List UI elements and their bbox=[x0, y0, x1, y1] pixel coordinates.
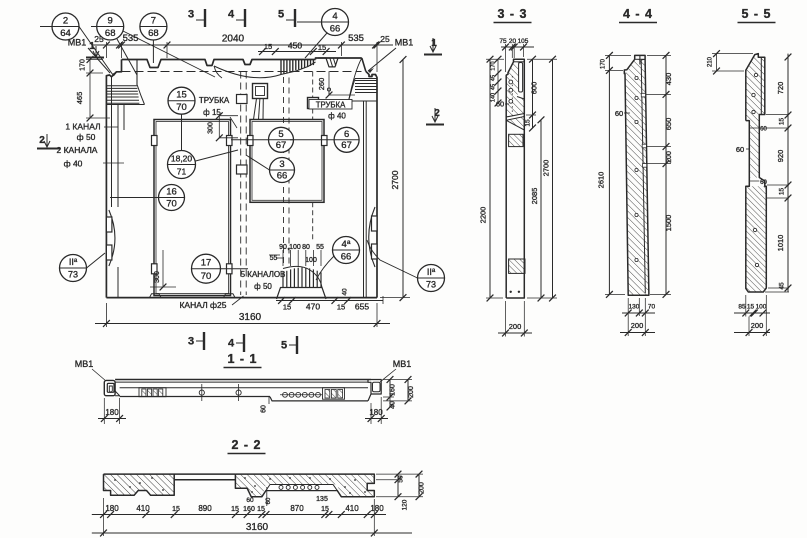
fan sweep arc bbox=[214, 66, 281, 78]
section 1-1 top flange bbox=[115, 379, 371, 381]
leader 2/64 bbox=[79, 27, 113, 76]
svg-text:16: 16 bbox=[166, 187, 177, 198]
svg-text:МВ1: МВ1 bbox=[75, 359, 94, 369]
channel fan vertical lines at top bbox=[280, 60, 282, 75]
right window opening bbox=[250, 120, 324, 203]
leader 4/66 bbox=[305, 33, 327, 58]
section 1-1 centerline circles bbox=[199, 390, 204, 395]
leader 15/70 bbox=[181, 114, 183, 150]
position circle 6/67 bbox=[334, 127, 359, 152]
svg-text:КАНАЛ ф25: КАНАЛ ф25 bbox=[179, 300, 226, 310]
section 3-3 small circles bbox=[509, 80, 513, 84]
section 2-2 dim 3160 bbox=[92, 532, 412, 534]
comb dim extension lines bbox=[282, 250, 284, 266]
left door opening bbox=[154, 120, 231, 296]
svg-text:160: 160 bbox=[390, 384, 397, 396]
svg-text:5: 5 bbox=[278, 9, 284, 21]
svg-text:600: 600 bbox=[530, 82, 539, 95]
svg-text:210: 210 bbox=[708, 56, 714, 67]
svg-text:15: 15 bbox=[525, 119, 532, 127]
section 3-3 corbel bottom edges bbox=[506, 114, 524, 118]
dim 3160 line bbox=[95, 323, 390, 325]
leader 6/67 bbox=[290, 139, 334, 141]
section 3-3 bottom dots bbox=[510, 291, 512, 293]
svg-text:МВ1: МВ1 bbox=[395, 38, 414, 48]
section 2-2 recess with channel circles bbox=[266, 485, 337, 491]
svg-text:45: 45 bbox=[491, 75, 497, 81]
svg-text:3: 3 bbox=[188, 336, 194, 348]
svg-text:870: 870 bbox=[290, 504, 304, 513]
svg-text:200: 200 bbox=[419, 482, 426, 494]
leader 16/70 bbox=[110, 197, 159, 199]
svg-text:15: 15 bbox=[779, 118, 786, 126]
panel plan outline bbox=[122, 60, 316, 68]
svg-text:410: 410 bbox=[345, 504, 359, 513]
svg-text:430: 430 bbox=[664, 73, 673, 86]
svg-text:15: 15 bbox=[264, 42, 272, 51]
section 5-5 bottom dims 85/15/100 bbox=[734, 312, 770, 314]
svg-text:15: 15 bbox=[172, 506, 180, 513]
svg-text:50: 50 bbox=[398, 475, 405, 483]
svg-text:200: 200 bbox=[751, 321, 764, 330]
svg-text:5: 5 bbox=[278, 129, 283, 140]
svg-text:5: 5 bbox=[281, 340, 287, 352]
right pier inner edge double line bbox=[363, 101, 365, 298]
svg-text:90: 90 bbox=[279, 244, 287, 251]
svg-text:535: 535 bbox=[348, 33, 364, 44]
svg-text:2610: 2610 bbox=[597, 172, 606, 189]
svg-text:100: 100 bbox=[756, 304, 767, 311]
svg-text:2 - 2: 2 - 2 bbox=[231, 438, 261, 452]
svg-text:15: 15 bbox=[283, 303, 291, 312]
panel top-left corner step bbox=[106, 60, 121, 298]
svg-text:2 КАНАЛА: 2 КАНАЛА bbox=[57, 145, 98, 155]
svg-text:ТРУБКА: ТРУБКА bbox=[316, 100, 346, 109]
svg-text:7: 7 bbox=[151, 16, 156, 27]
svg-text:66: 66 bbox=[341, 251, 352, 262]
section 4-4 hatch bbox=[625, 59, 649, 295]
section 5-5 hatch lower bbox=[746, 186, 767, 292]
svg-text:120: 120 bbox=[402, 499, 409, 510]
svg-text:4 - 4: 4 - 4 bbox=[623, 7, 653, 21]
section 3-3 dim 2200 bbox=[489, 59, 491, 298]
svg-text:15: 15 bbox=[176, 90, 187, 101]
leader 3/66 bbox=[246, 155, 270, 170]
canal f25 leader bbox=[232, 296, 244, 305]
svg-text:60: 60 bbox=[760, 180, 767, 186]
section 3-3 top dims bbox=[501, 46, 534, 48]
section 4-4 bottom dims 130/70 bbox=[622, 312, 655, 314]
svg-text:170: 170 bbox=[80, 59, 87, 71]
position circle 3/66 bbox=[270, 158, 295, 183]
section 1-1 insert cells right bbox=[325, 390, 330, 399]
svg-text:655: 655 bbox=[355, 302, 369, 312]
trubka f40 square symbol right bbox=[308, 98, 319, 109]
canal leader lines left bbox=[111, 77, 113, 105]
section 1-1 channel circles bbox=[283, 392, 288, 397]
section 1-1 insert cells left bbox=[142, 389, 146, 397]
lines from trubka symbol down bbox=[254, 99, 257, 120]
svg-text:260: 260 bbox=[317, 78, 326, 91]
svg-text:180: 180 bbox=[370, 504, 384, 513]
svg-text:1 КАНАЛ: 1 КАНАЛ bbox=[65, 122, 100, 132]
section 2-2 concrete dots bbox=[114, 479, 116, 481]
dim 300 upper bbox=[218, 116, 220, 138]
section 1-1 left anchor block bbox=[104, 380, 115, 395]
svg-text:45: 45 bbox=[491, 84, 497, 90]
svg-text:15: 15 bbox=[257, 506, 265, 513]
canal leader lines bbox=[104, 126, 118, 128]
svg-text:60: 60 bbox=[261, 405, 268, 413]
svg-text:2200: 2200 bbox=[479, 207, 488, 224]
left corbel hatch band bbox=[106, 85, 137, 87]
svg-text:465: 465 bbox=[75, 92, 84, 105]
svg-text:ф 50: ф 50 bbox=[77, 132, 96, 142]
section 2-2 right dims bbox=[397, 474, 399, 497]
svg-text:300: 300 bbox=[154, 271, 161, 283]
section 4-4 small circles bbox=[635, 76, 638, 79]
svg-text:15: 15 bbox=[321, 506, 329, 513]
svg-text:85: 85 bbox=[738, 304, 746, 311]
leader 9/68 bbox=[117, 39, 137, 75]
svg-text:67: 67 bbox=[276, 140, 287, 151]
svg-text:2700: 2700 bbox=[390, 170, 400, 189]
keyway hatch top trapezoid 326-338 bbox=[318, 58, 338, 67]
leader from 9/68 to fan bbox=[123, 31, 215, 77]
position circle 4/66 top bbox=[322, 9, 349, 36]
svg-text:470: 470 bbox=[306, 302, 320, 312]
dim 170 left bbox=[89, 60, 91, 74]
trubka f15 square symbol bbox=[253, 84, 268, 99]
section 5-5 right dims bbox=[787, 54, 789, 292]
svg-text:40: 40 bbox=[342, 288, 349, 296]
trubka f40 leader dot bbox=[328, 91, 330, 95]
svg-text:410: 410 bbox=[136, 504, 150, 513]
svg-text:ф 50: ф 50 bbox=[254, 282, 272, 291]
svg-text:130: 130 bbox=[629, 304, 640, 311]
dim 300 lower left bbox=[162, 250, 164, 287]
comb dim line bbox=[269, 254, 280, 256]
section 1-1 right dims 160/200/40 bbox=[389, 380, 391, 398]
svg-text:170: 170 bbox=[601, 58, 607, 69]
right corbel hatch band bbox=[355, 80, 377, 82]
section 4-4 dim 170 and 2610 left bbox=[608, 55, 610, 294]
svg-text:68: 68 bbox=[105, 28, 116, 39]
section 3-3 inner slot bbox=[519, 63, 523, 93]
svg-text:70: 70 bbox=[201, 271, 212, 282]
section 4-4 body outline bbox=[624, 55, 649, 295]
svg-text:70: 70 bbox=[166, 198, 177, 209]
section 4-4 inner face line bbox=[641, 60, 645, 293]
position circle 9/68 bbox=[97, 13, 124, 40]
svg-text:66: 66 bbox=[277, 170, 288, 181]
position circle IIa/73 left bbox=[60, 255, 87, 282]
svg-text:180: 180 bbox=[105, 504, 119, 513]
right opening edge markers bbox=[248, 136, 254, 146]
svg-text:3160: 3160 bbox=[239, 312, 262, 323]
leader 17/70 bbox=[221, 268, 249, 270]
svg-text:60: 60 bbox=[615, 109, 623, 118]
trubka f40 boxed label bbox=[309, 100, 352, 110]
right edge lifting-loop arc bbox=[369, 207, 375, 267]
dim 465 left bbox=[89, 73, 91, 118]
section 2-2 web bbox=[174, 473, 235, 475]
section 2-2 dim row bbox=[92, 514, 386, 516]
position circle 17/70 bbox=[192, 254, 221, 283]
panel top-right corner step bbox=[366, 71, 377, 297]
svg-text:2: 2 bbox=[39, 135, 45, 146]
svg-text:80: 80 bbox=[302, 244, 310, 251]
svg-text:15: 15 bbox=[779, 188, 786, 196]
svg-text:3 - 3: 3 - 3 bbox=[497, 7, 527, 21]
svg-text:5 - 5: 5 - 5 bbox=[741, 7, 771, 21]
section 1-1 dim 180 right bbox=[365, 418, 388, 420]
svg-text:450: 450 bbox=[288, 41, 302, 51]
svg-text:ф 40: ф 40 bbox=[328, 112, 346, 121]
svg-text:71: 71 bbox=[177, 166, 187, 176]
svg-text:300: 300 bbox=[208, 122, 215, 134]
section 5-5 inner face line bbox=[760, 57, 762, 114]
MB1 right leader bbox=[368, 48, 396, 71]
svg-text:720: 720 bbox=[776, 82, 785, 95]
svg-text:105: 105 bbox=[518, 38, 529, 45]
svg-text:4: 4 bbox=[332, 11, 337, 22]
svg-text:70: 70 bbox=[176, 102, 187, 113]
section 3-3 dim 2700 bbox=[552, 59, 554, 298]
svg-text:66: 66 bbox=[330, 23, 341, 34]
svg-text:60: 60 bbox=[760, 127, 767, 133]
position circle IIa/73 right bbox=[418, 265, 445, 292]
svg-text:75: 75 bbox=[499, 38, 507, 45]
svg-text:70: 70 bbox=[648, 304, 656, 311]
svg-text:200: 200 bbox=[666, 151, 673, 163]
section 3-3 dim 600 and 15 bbox=[532, 59, 534, 128]
svg-text:200: 200 bbox=[408, 386, 415, 398]
section 3-3 body outline bbox=[506, 59, 524, 298]
svg-text:55: 55 bbox=[270, 255, 278, 262]
svg-text:5 КАНАЛОВ: 5 КАНАЛОВ bbox=[241, 270, 286, 279]
section 3-3 hatched insert lower bbox=[509, 259, 525, 273]
svg-text:17: 17 bbox=[201, 258, 212, 269]
door threshold feet bbox=[150, 294, 162, 298]
section 4-4 bottom dim 200 bbox=[620, 332, 655, 334]
left opening edge markers bbox=[152, 136, 158, 146]
section 4-4 cap tick bbox=[639, 55, 641, 64]
svg-text:15: 15 bbox=[747, 304, 755, 311]
section 3-3 hatch top bbox=[506, 62, 524, 117]
svg-text:15: 15 bbox=[231, 506, 239, 513]
dim 260 fan bbox=[328, 71, 330, 95]
svg-text:3: 3 bbox=[188, 9, 194, 21]
svg-text:40: 40 bbox=[390, 401, 397, 409]
leader IIa left bbox=[87, 253, 106, 268]
svg-text:60: 60 bbox=[496, 100, 504, 109]
section 1-1 left block wedge bbox=[115, 391, 120, 396]
svg-text:1500: 1500 bbox=[664, 215, 673, 232]
svg-text:1: 1 bbox=[431, 38, 437, 49]
svg-text:920: 920 bbox=[776, 150, 785, 163]
svg-text:60: 60 bbox=[246, 497, 254, 504]
leader 7/68 bbox=[152, 40, 154, 63]
section 3-3 left small dims bbox=[497, 59, 499, 103]
svg-text:МВ1: МВ1 bbox=[68, 38, 87, 48]
svg-text:18,20: 18,20 bbox=[171, 154, 193, 164]
channel lines below left corbel bbox=[111, 105, 113, 208]
svg-text:60: 60 bbox=[736, 145, 744, 154]
svg-text:25: 25 bbox=[380, 34, 390, 44]
svg-text:45: 45 bbox=[779, 282, 786, 290]
section 1-1 web bottom bbox=[120, 387, 368, 389]
section 3-3 dim 2085 bbox=[540, 120, 542, 298]
svg-text:135: 135 bbox=[316, 496, 328, 503]
leader 5/67 bbox=[231, 139, 269, 141]
svg-text:73: 73 bbox=[68, 269, 78, 279]
svg-text:68: 68 bbox=[148, 28, 159, 39]
section 3-3 slot bottom step bbox=[517, 97, 524, 100]
central vertical channel dashed pair bbox=[240, 72, 242, 296]
position circle 15/70 bbox=[168, 87, 195, 114]
section 1-1 right deeper lip bbox=[270, 397, 368, 401]
panel bottom edge bbox=[106, 297, 377, 299]
svg-text:2085: 2085 bbox=[530, 188, 539, 205]
svg-text:170: 170 bbox=[491, 61, 497, 70]
svg-text:73: 73 bbox=[426, 279, 436, 289]
svg-text:200: 200 bbox=[509, 322, 522, 331]
svg-text:9: 9 bbox=[108, 16, 113, 27]
dashed channels fan to comb bbox=[283, 77, 285, 266]
section 2-2 right block bbox=[235, 474, 374, 497]
svg-text:15: 15 bbox=[337, 303, 345, 312]
svg-text:6: 6 bbox=[344, 129, 349, 140]
svg-text:55: 55 bbox=[316, 244, 324, 251]
leader IIa right bbox=[367, 240, 418, 278]
svg-text:1 - 1: 1 - 1 bbox=[227, 352, 257, 366]
position circle 5/67 bbox=[269, 127, 294, 152]
section 5-5 hatch upper bbox=[746, 54, 765, 178]
extension lines top dims bbox=[105, 42, 107, 58]
leader 18,20/71 bbox=[196, 150, 239, 161]
top main dimension line bbox=[92, 44, 393, 46]
svg-text:МВ1: МВ1 bbox=[393, 359, 412, 369]
section 5-5 small circles bbox=[752, 93, 755, 96]
svg-text:ТРУБКА: ТРУБКА bbox=[199, 96, 230, 105]
svg-text:2: 2 bbox=[63, 16, 68, 27]
section 3-3 dotted channel line bbox=[511, 76, 513, 116]
left edge lifting-loop arc bbox=[109, 210, 115, 266]
section 3-3 hatched insert upper bbox=[509, 134, 523, 146]
svg-text:160: 160 bbox=[243, 506, 255, 513]
svg-text:67: 67 bbox=[341, 140, 352, 151]
svg-text:200: 200 bbox=[631, 321, 644, 330]
svg-text:,100: ,100 bbox=[287, 244, 301, 251]
svg-text:4: 4 bbox=[228, 338, 235, 350]
section 5-5 body outline bbox=[746, 54, 767, 292]
leader 4a/66 bbox=[316, 256, 334, 280]
section 2-2 left block bbox=[104, 474, 175, 495]
section 1-1 dim 180 left bbox=[98, 418, 126, 420]
svg-text:180: 180 bbox=[105, 408, 119, 417]
svg-text:3160: 3160 bbox=[246, 522, 269, 533]
svg-text:2700: 2700 bbox=[542, 160, 551, 177]
bottom sub dimension line 15/470/15/655 bbox=[276, 300, 383, 302]
svg-text:100: 100 bbox=[305, 257, 317, 264]
bottom comb element 5 channels bbox=[277, 288, 327, 300]
section 4-4 right dims bbox=[665, 55, 667, 294]
svg-text:ф 40: ф 40 bbox=[64, 159, 83, 169]
svg-text:3: 3 bbox=[279, 159, 284, 170]
svg-text:4: 4 bbox=[228, 9, 235, 21]
section 3-3 bottom dim 200 bbox=[498, 332, 532, 334]
position circle 2/64 bbox=[52, 13, 79, 40]
MB1 leader bbox=[88, 48, 110, 73]
svg-text:650: 650 bbox=[664, 118, 673, 131]
position circle 7/68 bbox=[140, 13, 167, 40]
svg-text:890: 890 bbox=[198, 504, 212, 513]
dim 2700 right bbox=[402, 60, 404, 298]
svg-text:1010: 1010 bbox=[776, 235, 785, 252]
section 4-4 edge notches bbox=[641, 93, 645, 97]
position circle 4a/66 bbox=[333, 237, 360, 264]
position circle 16/70 bbox=[159, 185, 185, 211]
section 1-1 right anchor block bbox=[368, 380, 371, 401]
section 5-5 bottom dim 200 bbox=[734, 332, 770, 334]
channel junction boxes bbox=[237, 95, 248, 104]
position circle 18,20/71 bbox=[168, 151, 196, 179]
svg-text:20: 20 bbox=[509, 38, 517, 45]
trubka f15 leader bbox=[230, 117, 237, 128]
sub dimension 450 line bbox=[258, 51, 336, 53]
svg-text:2040: 2040 bbox=[222, 34, 245, 45]
top dashed line (hidden edge) bbox=[122, 71, 362, 73]
svg-text:15: 15 bbox=[318, 43, 326, 52]
